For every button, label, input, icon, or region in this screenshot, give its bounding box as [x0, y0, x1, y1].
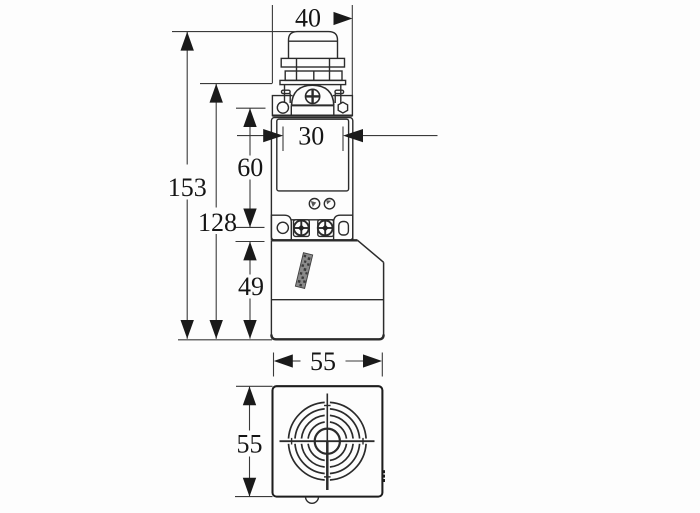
svg-text:49: 49: [238, 272, 264, 301]
svg-text:40: 40: [295, 4, 321, 33]
svg-text:30: 30: [298, 122, 324, 151]
svg-text:55: 55: [310, 347, 336, 376]
svg-text:55: 55: [237, 430, 263, 459]
svg-text:60: 60: [237, 153, 263, 182]
svg-text:153: 153: [168, 173, 207, 202]
svg-text:128: 128: [198, 208, 237, 237]
